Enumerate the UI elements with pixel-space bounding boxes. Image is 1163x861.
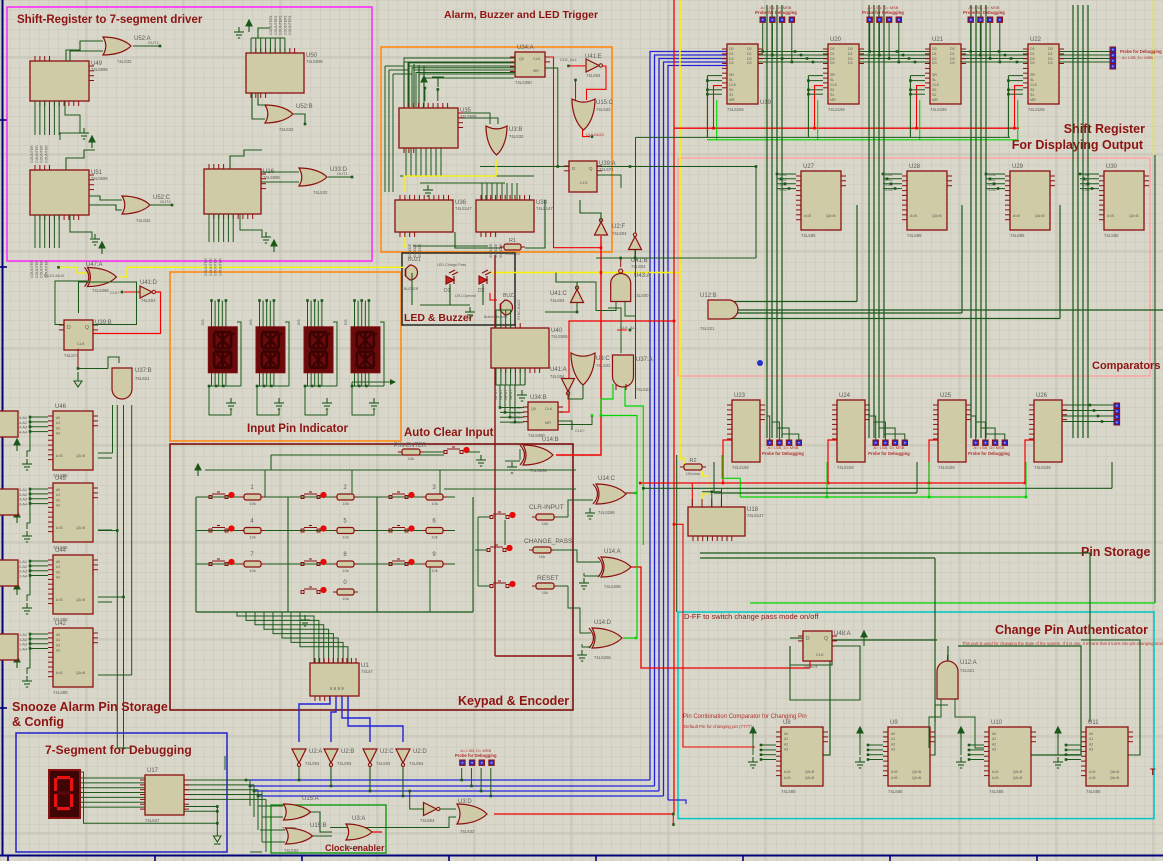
svg-text:COUNTER: COUNTER [204,258,208,276]
red CLK riser [917,86,926,129]
svg-text:A1: A1 [56,565,60,569]
wire bright green U14D output to right [623,637,636,639]
svg-text:U12:B: U12:B [700,293,717,299]
wire red mid horizontal to U34B clk [560,321,674,412]
svg-text:COUNTER: COUNTER [35,260,39,278]
svg-text:D1: D1 [932,52,937,56]
svg-text:MR: MR [830,98,836,102]
ground [1053,757,1063,768]
svg-text:A2: A2 [56,498,60,502]
svg-text:A3: A3 [56,576,60,580]
svg-text:U20: U20 [830,37,842,43]
connector comparator right [1114,403,1120,425]
wire U50 top feeds [250,38,252,53]
svg-text:U37:B: U37:B [135,368,152,374]
blue junction dot [757,360,763,366]
inverter U41:A down [562,379,575,396]
wire debug down arrow [224,756,226,770]
probe group U23 [762,440,804,456]
wire bright green vertical mid [601,416,637,639]
wire dark green encoder feed fan [237,612,314,663]
switch 8 [301,559,320,566]
svg-text:A3: A3 [56,504,60,508]
svg-text:74LS595: 74LS595 [91,176,108,181]
IC U19 shift register [722,44,772,112]
IC U20 shift register [823,37,864,112]
resistor [337,494,354,500]
svg-text:74LS266: 74LS266 [530,468,547,473]
svg-text:74LS390: 74LS390 [515,80,532,85]
switch [444,447,463,454]
svg-text:U15:C: U15:C [596,100,614,106]
svg-text:74147: 74147 [361,669,373,674]
wire red bottom horizontal [494,813,673,815]
IC U23 shift register [727,393,765,470]
IC U26 shift register [1029,393,1067,470]
wire dark green U3D inputs [439,808,456,810]
svg-text:74LS266: 74LS266 [92,288,109,293]
sheet border ticks [0,120,1037,861]
svg-text:74LS74: 74LS74 [64,353,79,358]
svg-text:U15-BUZ2: U15-BUZ2 [586,133,604,137]
svg-text:U44: U44 [55,548,67,554]
power arrow [421,76,427,88]
svg-text:QA>B: QA>B [805,776,815,780]
svg-text:74LS04: 74LS04 [420,818,435,823]
resistor [533,547,551,553]
resistor [244,494,261,500]
svg-text:7-Segment for Debugging: 7-Segment for Debugging [45,743,192,757]
wire bright green comparator row [740,496,1026,498]
svg-text:& Config: & Config [12,715,64,729]
svg-text:S1: S1 [830,93,834,97]
wire dark green U48 wiring [790,637,803,639]
junction dots on D-lines [794,50,797,53]
svg-text:MR: MR [729,98,735,102]
svg-text:1-A2: 1-A2 [19,638,27,642]
wire red U41E output [587,66,607,100]
lime MR riser [817,100,819,140]
wire U43A output top [620,258,622,267]
wire dark green U35 to U36/U38 mesh [400,175,534,177]
svg-text:U41:D: U41:D [140,280,158,286]
svg-text:QA>B: QA>B [1110,776,1120,780]
svg-text:SNOOZE: SNOOZE [418,243,422,258]
svg-text:A3: A3 [56,649,60,653]
display ground loop [352,386,374,415]
sheet border left [2,0,4,856]
AND gate U12:B [708,300,738,319]
svg-text:74LS74: 74LS74 [599,167,614,172]
wire dark green keypad column drops to encoder [429,564,431,612]
svg-text:10k: 10k [249,535,255,540]
XOR gate U14:A [598,557,631,577]
wire U47A input2 green [55,281,87,325]
svg-text:A<B: A<B [56,671,63,675]
power arrow [14,511,20,523]
svg-text:D1: D1 [950,52,955,56]
svg-text:A2: A2 [56,643,60,647]
wire U43A inputs bottom [575,282,616,311]
wire red U15C top-left input [574,79,577,82]
svg-text:A1: A1 [56,493,60,497]
wire dark green U1 outputs blue [299,696,330,742]
svg-text:74LS85: 74LS85 [1104,233,1119,238]
svg-text:U2:B: U2:B [341,749,354,755]
svg-text:Keypad & Encoder: Keypad & Encoder [458,694,569,708]
U18 top pin stubs [691,499,693,507]
resistor [536,514,554,520]
sheet border bottom [0,855,1163,857]
svg-text:1-A3: 1-A3 [19,643,27,647]
connector output right [1110,47,1116,69]
svg-text:A1: A1 [56,421,60,425]
wires above U40 [495,310,497,328]
svg-text:74LS21: 74LS21 [960,668,975,673]
buzzer BUZ1 [406,265,418,280]
wire dark green 7seg debug links [81,777,145,779]
svg-text:74LS595: 74LS595 [91,67,108,72]
wire U45 output right [98,529,112,531]
svg-text:D3: D3 [830,61,835,65]
svg-text:Alarm, Buzzer and LED Trigger: Alarm, Buzzer and LED Trigger [444,9,598,21]
svg-text:COUNTER1: COUNTER1 [279,15,283,35]
left wiring U9 [868,744,883,746]
7-segment display (input pin indicator) [208,327,237,373]
svg-text:D: D [806,636,810,642]
svg-text:SNOOZE: SNOOZE [494,243,498,258]
IC U49 shift register [30,56,108,106]
OR gate U15:C [572,99,595,130]
svg-text:A>B: A>B [784,776,791,780]
svg-text:MR: MR [932,98,938,102]
svg-text:74LS32: 74LS32 [279,127,294,132]
svg-text:U12:A: U12:A [960,660,977,666]
svg-text:74LS266: 74LS266 [594,655,611,660]
svg-text:74LS32: 74LS32 [460,829,475,834]
probe group 1 top [755,5,797,22]
dark green pin collector [706,76,708,138]
inverter U41:B up [629,233,642,250]
svg-text:U34:B: U34:B [530,395,547,401]
svg-text:74LS266: 74LS266 [604,584,621,589]
svg-text:QA<B: QA<B [1035,214,1045,218]
wire blue bus verticals (main data bus) [650,52,727,781]
wires left of U42 [30,633,48,635]
probe group 2 top [862,5,904,22]
wire dark green top-right vertical bundles [766,5,768,438]
svg-text:Q0: Q0 [519,57,524,61]
ground [22,676,32,687]
svg-text:A1: A1 [992,737,996,741]
svg-text:U2:F: U2:F [612,224,625,230]
svg-text:74LS32: 74LS32 [284,848,299,853]
svg-text:10k: 10k [342,568,348,573]
svg-text:SL: SL [1030,78,1034,82]
wire U41B links [634,250,636,258]
svg-text:LED-Opened: LED-Opened [455,294,476,298]
svg-text:SNOOZE: SNOOZE [489,243,493,258]
svg-text:A3: A3 [992,748,996,752]
probe group U24 [868,440,910,456]
svg-text:D2: D2 [478,288,485,294]
wire yellow vertical left of comparators [679,0,681,460]
wire red CLK bus top (shift registers) [674,127,1019,129]
wire dark green shift register D-lines [727,51,1110,53]
svg-text:Probe for Debugging: Probe for Debugging [862,10,904,15]
svg-text:A1: A1 [891,737,895,741]
display bottom rail [352,385,384,387]
svg-text:CLK: CLK [545,407,553,411]
wire dark green probe drops top [762,23,764,52]
svg-text:CLK: CLK [580,181,588,185]
svg-text:Shift Register: Shift Register [1064,122,1145,136]
IC U29 comparator [1005,164,1055,238]
wire red U41E input [570,65,585,67]
svg-text:CLK: CLK [1030,83,1038,87]
svg-text:10k: 10k [542,521,548,526]
svg-text:U15:A: U15:A [302,796,319,802]
LED D2 [479,270,491,284]
power arrow [271,240,277,252]
svg-text:U14:C: U14:C [598,476,616,482]
svg-text:D0: D0 [1030,47,1035,51]
svg-text:QA<B: QA<B [912,770,922,774]
svg-text:8 6 9 9: 8 6 9 9 [330,686,344,691]
wire red U15C output [583,130,591,137]
wire U49 to U52A [66,41,103,61]
svg-text:74LS32: 74LS32 [596,107,611,112]
svg-text:LED & Buzzer: LED & Buzzer [404,312,473,324]
svg-text:U25: U25 [940,393,952,399]
wire U52B output [293,114,305,124]
D flip-flop U48:A [798,631,851,669]
svg-text:74LS32: 74LS32 [596,363,611,368]
wire inverter outputs to blue bus [298,764,300,780]
svg-text:COUNTER: COUNTER [30,145,34,163]
resistor [244,561,261,567]
svg-text:COUNTER1: COUNTER1 [274,15,278,35]
wire red CLK bus comparator row [640,482,1025,484]
region box: comparators (pink) [678,158,1150,376]
svg-text:74LS04: 74LS04 [550,298,565,303]
svg-text:10k: 10k [539,554,545,559]
wire red U41D loop [93,292,161,334]
svg-text:CLK_ALL: CLK_ALL [560,57,578,62]
IC U36 counter [395,195,472,237]
svg-text:74LS32: 74LS32 [313,190,328,195]
svg-text:A0: A0 [891,732,895,736]
svg-text:A<B: A<B [1107,214,1114,218]
svg-text:U14:A: U14:A [604,549,621,555]
wires left of U46 [30,416,48,418]
ground [90,234,100,245]
svg-text:BUZ2: BUZ2 [503,293,516,299]
svg-text:BUZ2-MUX: BUZ2-MUX [44,273,65,278]
svg-text:QA>B: QA>B [912,776,922,780]
ground arrow under U17 loop [214,836,222,844]
display right loop [380,322,384,386]
svg-text:A2: A2 [992,742,996,746]
svg-text:U2:D: U2:D [413,749,427,755]
switch 6 [389,526,408,533]
OR gate U3:B [486,126,507,155]
wire dark green keypad top row link [270,455,272,470]
wire U47A output yellow [119,267,127,277]
svg-text:QA<B: QA<B [76,454,86,458]
svg-text:74LS85: 74LS85 [1010,233,1025,238]
svg-text:10k: 10k [342,535,348,540]
svg-text:Q: Q [589,166,593,171]
svg-text:D0: D0 [848,47,853,51]
svg-text:74LS04: 74LS04 [376,761,391,766]
svg-text:U10: U10 [991,720,1003,726]
wire U51 to U52C [66,150,95,170]
svg-text:74LS266: 74LS266 [598,510,615,515]
svg-text:COUNTER: COUNTER [40,260,44,278]
svg-text:2-A4: 2-A4 [19,575,27,579]
svg-text:SR: SR [830,73,835,77]
XOR gate U14:B [520,445,553,465]
power arrow [958,727,964,739]
IC U24 shift register [832,393,870,470]
svg-text:A= LSB, D= MSB: A= LSB, D= MSB [874,445,905,450]
svg-text:74LS194: 74LS194 [930,107,947,112]
OR gate U52:C [122,196,150,214]
left edge cut components [0,411,18,437]
OR gate U33:D [299,168,327,186]
wire U39B bottom [77,349,79,369]
wires U34A left bundle [404,58,515,107]
resistor [426,561,443,567]
svg-text:S0: S0 [932,88,936,92]
svg-text:4-A2: 4-A2 [19,421,27,425]
IC U35 decoder [399,103,477,153]
svg-text:SL: SL [932,78,936,82]
svg-text:A<B: A<B [56,454,63,458]
wire dark green long into U39A D [480,166,569,168]
svg-text:MR: MR [1030,98,1036,102]
wire dark green U26 outputs to connector [1062,404,1114,406]
lime MR riser [716,100,718,140]
wire red to pin storage [673,523,676,526]
IC U50 shift register [246,48,323,98]
svg-text:A1: A1 [784,737,788,741]
svg-text:A<B: A<B [804,214,811,218]
left wiring U11 [1066,744,1081,746]
svg-text:D-FF to switch change pass mod: D-FF to switch change pass mode on/off [684,612,819,621]
svg-text:SYNC-BUZZ: SYNC-BUZZ [517,299,521,320]
switch [487,545,506,552]
svg-text:Probe for Debugging: Probe for Debugging [868,451,910,456]
OR gate U15:A [284,804,311,820]
wire yellow U3B output to U36 [404,159,496,192]
switch 3 [389,492,408,499]
wire dark green R1 link [455,232,502,248]
region box: Keypad & Encoder (dark red) [170,444,573,710]
power arrow [1055,727,1061,739]
wire U52C output [150,204,172,206]
svg-text:74LS04: 74LS04 [550,374,565,379]
resistor [426,494,443,500]
probe group 3 top [963,5,1005,22]
wires side keys [478,516,490,518]
IC U11 comparator [1081,720,1133,794]
OR gate U15:B [286,828,313,844]
svg-text:A3: A3 [891,748,895,752]
svg-text:74LS85: 74LS85 [888,789,903,794]
OR gate U3:C [571,353,595,385]
svg-text:10k: 10k [249,501,255,506]
svg-text:D3: D3 [950,61,955,65]
svg-text:Snooze Alarm Pin Storage: Snooze Alarm Pin Storage [12,700,168,714]
svg-text:A0: A0 [1089,732,1093,736]
wires below U49 [34,101,36,135]
svg-text:Probe for Debugging: Probe for Debugging [455,753,497,758]
svg-text:74LS32: 74LS32 [136,218,151,223]
IC U34:A counter [510,45,550,85]
inverter U2:E [424,803,441,816]
svg-text:S0: S0 [1030,88,1034,92]
svg-text:U14:D: U14:D [594,620,612,626]
probe group U25 [968,440,1010,456]
wire blue bus horizontals (to keypad encoder) [246,779,650,781]
svg-text:74LS21: 74LS21 [135,376,150,381]
ground [226,398,236,409]
wires left of U45 [30,488,48,490]
display bottom rail [257,385,289,387]
svg-text:OUT2: OUT2 [148,40,159,45]
svg-text:RESET: RESET [537,575,559,582]
svg-text:COUNTER: COUNTER [30,260,34,278]
svg-text:D1: D1 [830,52,835,56]
svg-text:A0: A0 [56,488,60,492]
IC U25 shift register [933,393,971,470]
svg-text:U3:D: U3:D [458,799,472,805]
wire dark green debug display right loop [80,772,217,823]
IC U27 comparator [796,164,846,238]
svg-text:Change Pin Authenticator: Change Pin Authenticator [995,623,1148,637]
wire dark green pair tails [117,747,130,749]
IC U39:A flip-flop [564,161,616,192]
svg-text:Pin Storage: Pin Storage [1081,545,1151,559]
region box: Shift-Register to 7-segment driver (magenta) [7,7,372,261]
svg-text:S1: S1 [932,93,936,97]
svg-text:SL: SL [830,78,834,82]
svg-text:S1: S1 [729,93,733,97]
IC U45 comparator [48,476,98,550]
wire dark green U34B MR link [558,416,592,425]
wire yellow U36 bottom [404,232,406,246]
svg-text:10k: 10k [431,501,437,506]
svg-text:74LS85: 74LS85 [1086,789,1101,794]
wire yellow R2 link [680,458,684,464]
resistor R2 [684,464,702,470]
svg-text:74LS147: 74LS147 [455,206,472,211]
wire U47A input yellow [59,267,88,273]
power arrow [99,242,105,254]
svg-text:CLK: CLK [932,83,940,87]
svg-text:74LS21: 74LS21 [636,387,651,392]
XOR gate U47:A [85,268,117,287]
XOR gate U14:C [593,484,626,504]
svg-text:COUNTER1: COUNTER1 [283,15,287,35]
red CLK riser [1015,86,1024,129]
wires below U51 [34,215,36,248]
svg-text:U43:A: U43:A [634,273,651,279]
svg-text:74LS04: 74LS04 [305,761,320,766]
svg-text:D1: D1 [729,52,734,56]
